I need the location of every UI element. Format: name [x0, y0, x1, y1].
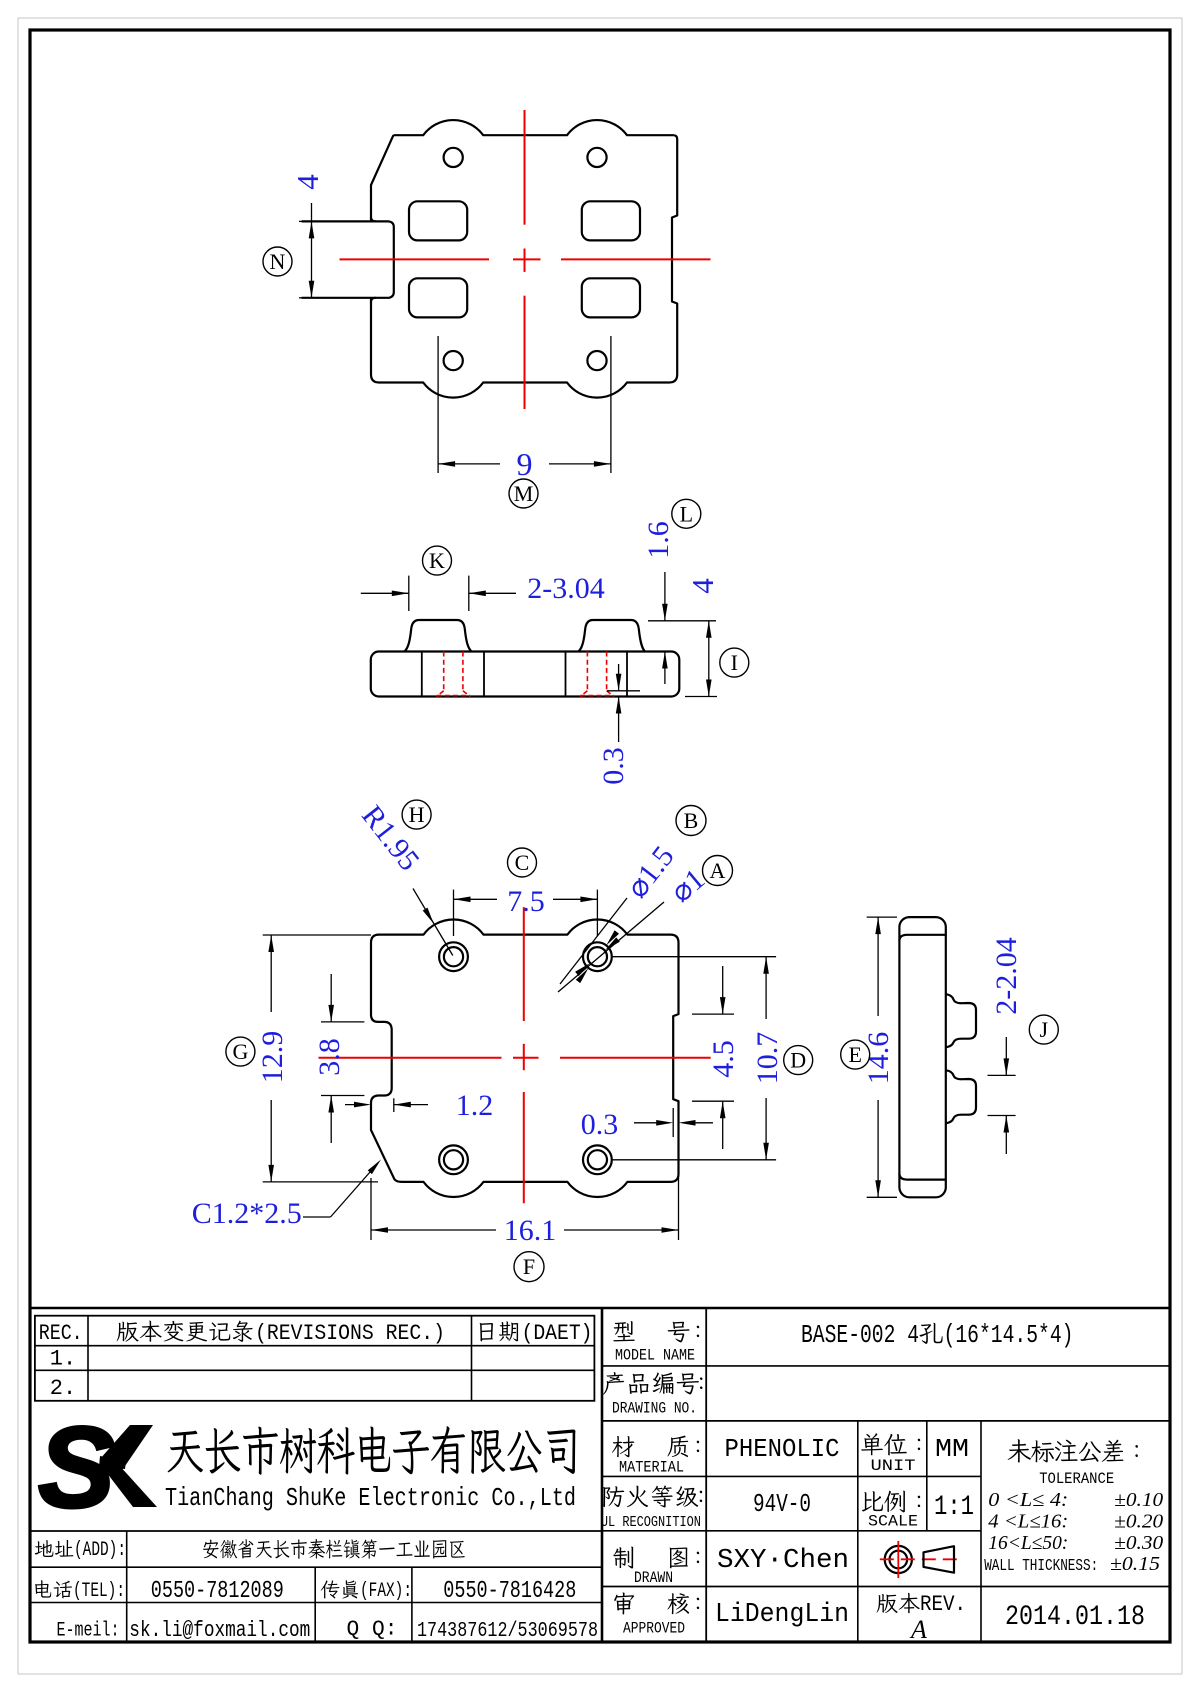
svg-text:±0.15: ±0.15	[1110, 1553, 1160, 1575]
dim 16.1 (overall width)	[370, 1178, 372, 1240]
balloon D	[784, 1046, 813, 1075]
dim 12.9 (overall height)	[263, 934, 371, 936]
balloon B	[676, 806, 706, 836]
svg-text:B: B	[684, 808, 699, 833]
dim 9 (slot pitch)	[437, 336, 439, 473]
svg-text:4 <L≤16:: 4 <L≤16:	[988, 1511, 1068, 1533]
svg-text:DRAWN: DRAWN	[634, 1569, 673, 1587]
svg-text:9: 9	[517, 446, 533, 482]
svg-text:(REVISIONS REC.): (REVISIONS REC.)	[255, 1321, 445, 1346]
dim 4.5 (notch height)	[692, 1013, 734, 1015]
title block: main grid	[30, 1307, 1170, 1310]
svg-text:1:1: 1:1	[934, 1492, 974, 1523]
balloon G	[226, 1037, 255, 1066]
dim dia1.5 leader	[560, 898, 627, 984]
svg-text:M: M	[514, 481, 534, 506]
profile view: face edge lines	[899, 935, 945, 941]
svg-text:(DAET): (DAET)	[522, 1321, 593, 1346]
profile view: outline	[899, 917, 945, 1197]
svg-text:(16*14.5*4): (16*14.5*4)	[944, 1320, 1074, 1350]
svg-text:0 <L≤ 4:: 0 <L≤ 4:	[988, 1489, 1068, 1511]
svg-text:REC.: REC.	[39, 1321, 83, 1346]
svg-text:±0.30: ±0.30	[1114, 1532, 1163, 1554]
svg-text:H: H	[409, 802, 425, 827]
UL row	[603, 1486, 624, 1507]
svg-text:2-2.04: 2-2.04	[990, 937, 1023, 1015]
right title grid	[705, 1308, 707, 1642]
dim 0.3 (countersink depth)	[607, 690, 640, 692]
dim 1.6 (boss height)	[648, 620, 716, 622]
svg-text:E-meil:: E-meil:	[57, 1620, 120, 1643]
dim 7.5 (hole pitch)	[453, 890, 455, 936]
svg-text:3.8: 3.8	[313, 1038, 346, 1076]
svg-text:UL RECOGNITION: UL RECOGNITION	[601, 1514, 701, 1531]
svg-text:K: K	[429, 548, 445, 573]
svg-text:16.1: 16.1	[504, 1214, 557, 1247]
svg-text:12.9: 12.9	[256, 1031, 289, 1084]
svg-text:UNIT: UNIT	[871, 1457, 916, 1475]
svg-text:sk.li@foxmail.com: sk.li@foxmail.com	[129, 1618, 310, 1643]
svg-text:Q Q:: Q Q:	[347, 1619, 398, 1642]
svg-text:MATERIAL: MATERIAL	[619, 1459, 684, 1477]
address rows grid	[30, 1530, 602, 1532]
top view: left tab	[302, 221, 394, 297]
balloon K	[423, 546, 452, 575]
svg-text:PHENOLIC: PHENOLIC	[725, 1434, 840, 1464]
front view: bar outline	[371, 652, 680, 697]
revisions table	[35, 1316, 595, 1401]
svg-text:J: J	[1040, 1017, 1049, 1042]
drawing no row	[603, 1372, 624, 1395]
balloon J	[1029, 1015, 1058, 1044]
front view: left boss	[404, 620, 471, 652]
svg-text:(TEL):: (TEL):	[73, 1580, 125, 1603]
svg-text:2.: 2.	[50, 1376, 76, 1401]
svg-text:7.5: 7.5	[507, 885, 545, 918]
svg-text:0550-7816428: 0550-7816428	[443, 1578, 576, 1605]
svg-text:SXY·Chen: SXY·Chen	[717, 1546, 849, 1576]
svg-text:A: A	[710, 858, 726, 883]
svg-text:WALL THICKNESS:: WALL THICKNESS:	[984, 1557, 1098, 1576]
svg-text:MODEL NAME: MODEL NAME	[615, 1347, 695, 1365]
svg-text:E: E	[848, 1042, 861, 1067]
balloon H	[402, 800, 431, 829]
dim 2-2.04 (boss width)	[988, 1074, 1016, 1076]
balloon L	[672, 499, 701, 528]
svg-text:2014.01.18: 2014.01.18	[1005, 1602, 1145, 1633]
dim 4 (tab height)	[311, 203, 313, 298]
plan view: part outline	[371, 919, 679, 1197]
dim 14.6 (overall length)	[867, 916, 897, 918]
plan view: 4 holes concentric	[439, 942, 468, 971]
plan view: red centerlines	[319, 1057, 502, 1059]
balloon I	[720, 648, 749, 677]
svg-text:0550-7812089: 0550-7812089	[151, 1578, 284, 1605]
address row texts	[35, 1540, 54, 1557]
svg-text:G: G	[232, 1039, 248, 1064]
svg-text:TianChang ShuKe Electronic Co.: TianChang ShuKe Electronic Co.,Ltd	[165, 1483, 576, 1513]
front view: hidden pin holes (red dashed)	[443, 652, 445, 691]
svg-text:±0.10: ±0.10	[1114, 1489, 1163, 1511]
dim dia1 leader	[558, 902, 664, 992]
svg-text:10.7: 10.7	[751, 1032, 784, 1085]
front view: right boss	[578, 620, 645, 652]
balloon N	[263, 247, 292, 276]
svg-text:94V-0: 94V-0	[753, 1489, 811, 1519]
svg-text:4: 4	[685, 578, 720, 594]
svg-text:MM: MM	[935, 1434, 969, 1464]
svg-text:DRAWING NO.: DRAWING NO.	[612, 1400, 697, 1418]
svg-text:±0.20: ±0.20	[1114, 1511, 1163, 1533]
svg-text:C: C	[515, 850, 530, 875]
svg-text:BASE-002 4: BASE-002 4	[801, 1320, 919, 1350]
profile view: upper boss	[946, 994, 976, 1047]
svg-text:N: N	[270, 249, 286, 274]
projection symbol	[885, 1546, 912, 1573]
drawn row	[613, 1547, 633, 1569]
svg-text:L: L	[680, 501, 693, 526]
dim 4 (overall height)	[685, 696, 717, 698]
svg-text:1.: 1.	[50, 1347, 76, 1372]
svg-text:174387612/53069578: 174387612/53069578	[417, 1620, 598, 1643]
svg-text:(ADD):: (ADD):	[74, 1539, 126, 1562]
dim 10.7 (hole row pitch)	[612, 956, 776, 958]
front view: edge lines	[421, 652, 423, 697]
svg-text:I: I	[731, 650, 738, 675]
dim 0.3 (right step)	[672, 1108, 674, 1137]
material row	[612, 1436, 634, 1457]
top view: left edge upper segment + chamfer	[371, 135, 393, 221]
model name row	[613, 1321, 635, 1341]
company name	[168, 1431, 203, 1473]
svg-text:0.3: 0.3	[581, 1108, 619, 1141]
svg-text:A: A	[909, 1615, 927, 1644]
svg-text:1.2: 1.2	[456, 1089, 494, 1122]
svg-text:4: 4	[290, 174, 325, 190]
svg-text:16<L≤50:: 16<L≤50:	[988, 1532, 1068, 1554]
balloon E	[841, 1040, 870, 1069]
svg-text:1.6: 1.6	[642, 521, 675, 559]
svg-text:14.6: 14.6	[862, 1032, 895, 1085]
svg-text:REV.: REV.	[920, 1592, 966, 1617]
svg-text:F: F	[523, 1254, 535, 1279]
profile view: lower boss	[946, 1070, 976, 1123]
tolerance box	[1008, 1439, 1031, 1462]
dim 3.8 (notch height)	[321, 1021, 364, 1023]
svg-text:APPROVED: APPROVED	[623, 1620, 685, 1638]
top view: 4 pin holes (circles)	[444, 148, 463, 167]
svg-text:0.3: 0.3	[597, 747, 630, 785]
top view: red centerlines	[524, 110, 526, 225]
top view: 4 slots (rounded rects)	[409, 201, 467, 240]
svg-text:C1.2*2.5: C1.2*2.5	[192, 1197, 302, 1230]
chamfer label C1.2*2.5	[303, 1216, 331, 1218]
svg-text:2-3.04: 2-3.04	[527, 572, 605, 605]
svg-text:(FAX):: (FAX):	[360, 1580, 412, 1603]
balloon M	[509, 479, 538, 508]
balloon F	[514, 1252, 544, 1282]
dim 2-3.04 (boss width)	[408, 576, 410, 611]
svg-text:D: D	[790, 1048, 806, 1073]
balloon C	[508, 848, 537, 877]
svg-text:SCALE: SCALE	[868, 1513, 918, 1531]
approved row	[614, 1592, 634, 1614]
top view: part outline	[371, 120, 677, 398]
svg-text:LiDengLin: LiDengLin	[715, 1600, 849, 1630]
dim 1.2 (notch depth)	[393, 1098, 395, 1112]
svg-text:TOLERANCE: TOLERANCE	[1039, 1470, 1114, 1488]
balloon A	[703, 856, 733, 886]
svg-text:4.5: 4.5	[707, 1040, 740, 1078]
dim R1.95 leader	[413, 889, 453, 956]
